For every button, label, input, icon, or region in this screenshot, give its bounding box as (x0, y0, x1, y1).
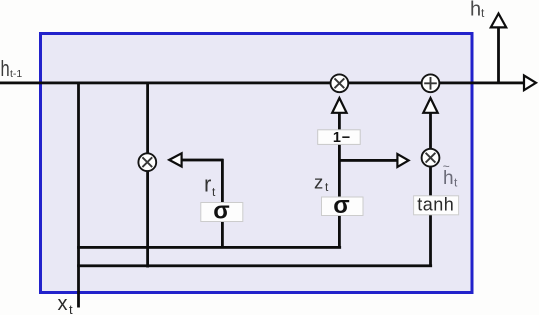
label h tilde t (candidate) (443, 160, 458, 190)
adder node on main line (422, 74, 440, 92)
wire h_t output vertical (497, 27, 500, 83)
box sigma z (update gate) (322, 192, 364, 219)
wire vertical through reset multiplier (146, 83, 149, 268)
wire r_t arrow line to reset multiplier (180, 159, 224, 162)
svg-text:z: z (314, 172, 323, 193)
svg-text:x: x (58, 293, 68, 315)
label x_t input (58, 293, 74, 315)
GRU cell box (41, 34, 473, 293)
svg-text:~: ~ (443, 160, 450, 174)
wire horizontal bottom bus 2 (77, 264, 432, 267)
box 1- (one minus) (318, 130, 361, 146)
arrowhead left into reset multiplier (169, 153, 181, 166)
svg-text:σ: σ (333, 192, 349, 219)
arrowhead up h_t output (491, 14, 506, 28)
svg-text:t: t (481, 6, 485, 20)
label r_t (204, 172, 216, 200)
wire vertical through sigma r (221, 159, 224, 248)
svg-text:1−: 1− (333, 130, 351, 146)
svg-text:h: h (470, 0, 481, 21)
svg-text:σ: σ (213, 198, 229, 225)
label h_t output (470, 0, 485, 21)
wire horizontal bottom bus 1 (77, 246, 341, 249)
wire h_t-1 main horizontal line (0, 82, 525, 85)
wire vertical z line through sigma z (338, 144, 341, 248)
svg-text:r: r (204, 172, 211, 197)
wire vertical through tanh and candidate multiplier (429, 112, 432, 267)
label z_t (314, 172, 329, 195)
box sigma r (reset gate) (201, 198, 243, 225)
label h_t-1 input (1, 57, 23, 82)
multiplier node update gate on main line (331, 74, 349, 92)
svg-text:t: t (69, 302, 73, 315)
arrowhead up into adder (423, 98, 437, 113)
svg-text:h: h (1, 57, 10, 82)
svg-text:t-1: t-1 (10, 68, 22, 80)
arrowhead right main output (524, 76, 536, 91)
svg-text:tanh: tanh (417, 195, 454, 215)
wire z branch horizontal to candidate multiplier (338, 159, 398, 162)
multiplier node reset gate (138, 153, 156, 171)
arrowhead up into update multiplier (332, 98, 346, 113)
arrowhead right into candidate multiplier (397, 154, 408, 167)
multiplier node candidate (422, 149, 440, 167)
wire vertical drop from h line to bottom (x_t input) (77, 83, 80, 308)
box tanh (414, 195, 459, 215)
wire vertical z line below update multiplier (338, 111, 341, 131)
